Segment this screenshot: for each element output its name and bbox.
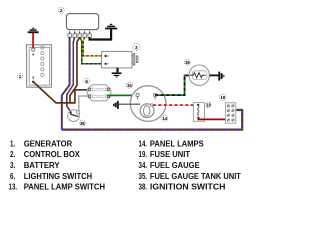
fuse unit body (225, 103, 235, 123)
ground generator (28, 27, 39, 33)
svg-text:3: 3 (135, 45, 138, 50)
control box body (66, 14, 98, 30)
wire brown bundle to lighting switch (70, 37, 80, 102)
label 14 (162, 115, 168, 121)
svg-text:IGNITION SWITCH: IGNITION SWITCH (150, 182, 226, 192)
svg-text:6.: 6. (10, 171, 15, 181)
svg-text:19: 19 (220, 95, 225, 100)
wire black fuel gauge case to earth (119, 103, 141, 105)
svg-text:38.: 38. (139, 182, 148, 192)
panel lamp switch body (193, 103, 204, 122)
wire green/black control box to battery bottom (80, 37, 105, 64)
wire white lighting switch to ignition switch (79, 96, 90, 111)
svg-text:13.: 13. (9, 182, 18, 192)
ground battery (112, 68, 122, 78)
generator terminal D (top) (32, 48, 35, 56)
wire green/black fuel gauge to tank unit (155, 75, 189, 95)
fuel gauge tank unit (189, 65, 209, 85)
svg-text:GENERATOR: GENERATOR (24, 138, 73, 148)
svg-text:6: 6 (85, 79, 88, 84)
ground control box (105, 23, 117, 29)
wire red panel lamp switch to fuse unit (198, 118, 225, 119)
svg-text:14.: 14. (139, 138, 148, 148)
svg-text:1.: 1. (10, 138, 15, 148)
label 3 (133, 43, 140, 50)
svg-text:PANEL LAMP SWITCH: PANEL LAMP SWITCH (24, 182, 105, 192)
svg-text:FUSE UNIT: FUSE UNIT (150, 149, 191, 159)
label 2 (58, 7, 64, 13)
svg-text:19.: 19. (139, 149, 148, 159)
wire green lighting switch to panel lamp (107, 94, 137, 96)
label 19 (220, 94, 226, 100)
svg-text:FUEL GAUGE: FUEL GAUGE (150, 160, 200, 170)
label 6 (84, 79, 89, 85)
wire brown generator to lighting switch (33, 82, 89, 103)
control box terminal letters (69, 32, 90, 33)
fuel gauge movement (140, 104, 154, 118)
panel lamp socket left (136, 94, 139, 100)
svg-text:35.: 35. (139, 171, 148, 181)
svg-text:BATTERY: BATTERY (24, 160, 60, 170)
svg-text:2: 2 (60, 8, 63, 13)
instrument housing circle (130, 86, 166, 122)
svg-text:2.: 2. (10, 149, 15, 159)
svg-text:14: 14 (162, 116, 167, 121)
label 13 (206, 102, 212, 107)
control box terminal pins (68, 30, 91, 38)
ignition switch body (68, 110, 80, 122)
wire black tank unit to earth (209, 74, 218, 76)
battery body (102, 51, 132, 68)
ground fuel gauge (113, 101, 119, 109)
svg-text:CONTROL BOX: CONTROL BOX (24, 149, 80, 159)
svg-text:LIGHTING SWITCH: LIGHTING SWITCH (24, 171, 92, 181)
ground tank unit (218, 72, 224, 81)
wire blue/brown control box to ignition switch (67, 37, 75, 111)
svg-text:34.: 34. (139, 160, 148, 170)
generator G1 body (27, 45, 52, 87)
label 34 (126, 82, 132, 88)
wire red generator earth (32, 33, 34, 48)
svg-text:13: 13 (206, 102, 211, 107)
svg-text:FUEL GAUGE TANK UNIT: FUEL GAUGE TANK UNIT (150, 171, 242, 181)
label 38 (79, 120, 85, 126)
svg-text:PANEL LAMPS: PANEL LAMPS (150, 138, 204, 148)
svg-text:3.: 3. (10, 160, 15, 170)
svg-text:1: 1 (19, 74, 22, 79)
legend text (9, 138, 242, 191)
wire black control box to earth (90, 29, 112, 39)
lighting switch body (87, 85, 111, 101)
label 35 (185, 59, 191, 65)
wire blue/brown bottom rail to fuse unit (62, 110, 242, 130)
label 1 (17, 74, 23, 80)
wire yellow/green control box to battery top (83, 37, 104, 56)
wire red/white panel lamps to panel lamp switch (151, 104, 197, 107)
wire blue/brown control box down-drop (62, 37, 70, 129)
svg-text:35: 35 (185, 60, 190, 65)
panel lamp socket right (154, 94, 157, 100)
svg-text:38: 38 (80, 121, 85, 126)
battery post (132, 54, 138, 65)
generator terminal F (bottom) (32, 76, 34, 83)
svg-text:34: 34 (127, 83, 132, 88)
